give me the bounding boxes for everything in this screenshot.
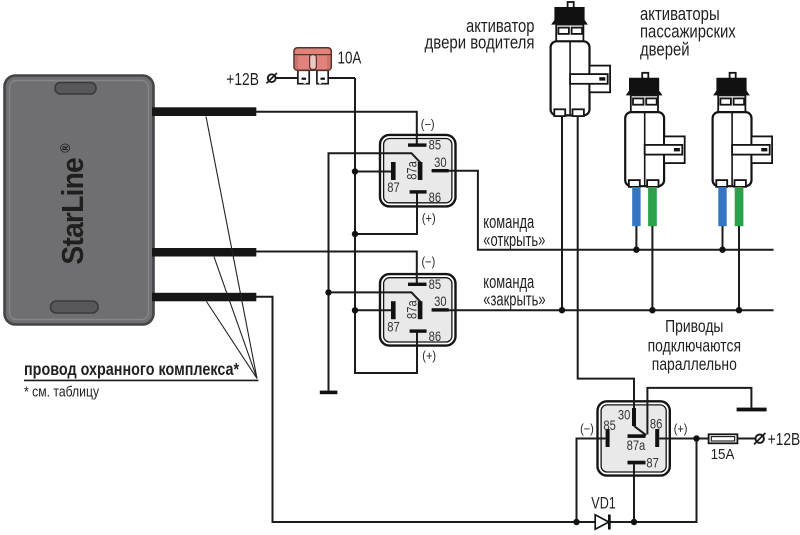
relay K1 armature contact	[418, 162, 423, 180]
relay K3 armature	[634, 426, 646, 435]
relay K1 pin 85	[408, 143, 427, 146]
svg-text:StarLine®: StarLine®	[56, 143, 90, 265]
svg-text:двери водителя: двери водителя	[425, 32, 535, 53]
relay K1 (−) label	[421, 117, 435, 132]
wire: M2 blue lead to unlock bus	[635, 226, 637, 250]
relay K2 armature contact	[418, 301, 423, 319]
node: M3 blue to unlock bus	[719, 247, 725, 253]
relay K3 pin 86 label	[650, 415, 662, 432]
wire: fuse F1 to +12V rail	[328, 77, 356, 79]
callout line to wire 2	[214, 257, 257, 379]
node: K3 pin 85 to bottom rail	[573, 519, 579, 525]
callout line to wire 3	[207, 302, 258, 379]
svg-text:85: 85	[429, 276, 441, 293]
svg-text:87: 87	[387, 179, 399, 196]
relay K3 pin 85 label	[603, 417, 615, 434]
relay K2 pin 85 label	[429, 276, 441, 293]
relay K2 pin 87 label	[387, 318, 399, 335]
wire: driver actuator right lead to relay K3 pin 30	[578, 116, 634, 408]
node: M2 blue to unlock bus	[633, 247, 639, 253]
relay K1 pin 30	[432, 169, 449, 172]
wire: trigger wire 1 to K1 pin 85	[256, 112, 417, 145]
relay K1 pin 86	[410, 190, 427, 193]
relay K3 pin 87a	[628, 434, 646, 438]
svg-text:(−): (−)	[422, 254, 436, 269]
label: команда «открыть»	[483, 213, 545, 251]
label +12В (top)	[226, 70, 259, 89]
+12V terminal (top)	[267, 73, 277, 83]
svg-text:30: 30	[434, 154, 446, 171]
wire: +12V branch to K1 pin 86	[355, 193, 417, 234]
note: * см. таблицу	[24, 383, 99, 399]
svg-text:10A: 10A	[338, 49, 362, 68]
svg-text:* см. таблицу: * см. таблицу	[24, 383, 99, 399]
wire: driver actuator left lead to lock bus	[561, 116, 563, 310]
label: провод охранного комплекса*	[24, 361, 259, 381]
StarLine logo	[56, 143, 90, 265]
relay K3 pin 30 label	[618, 406, 630, 423]
label: активатор двери водителя	[425, 16, 535, 53]
relay K1 (unlock relay) body	[380, 135, 456, 207]
relay K2 (+) label	[422, 348, 436, 363]
wire: +12V branch to K1 pin 87	[355, 171, 392, 173]
label VD1	[591, 495, 616, 513]
svg-text:87: 87	[387, 318, 399, 335]
wire: trigger wire 2 to K2 pin 85	[256, 252, 417, 285]
label 10A	[338, 49, 362, 68]
wire: K3 pin 87a to ground	[647, 388, 751, 435]
thick output wire 1 (unlock trigger)	[152, 107, 256, 116]
relay K3 (+) label	[674, 421, 688, 436]
svg-text:+12В: +12В	[226, 70, 259, 89]
svg-text:87а: 87а	[403, 160, 420, 179]
label: Приводы подключаются параллельно	[648, 317, 741, 374]
relay K2 pin 85	[408, 283, 427, 286]
node: M3 green to lock bus	[736, 307, 742, 313]
label: команда «закрыть»	[483, 273, 545, 310]
wire: K3 pin 87 to bottom rail	[633, 465, 635, 523]
node: M2 green to lock bus	[649, 307, 655, 313]
relay K2 (lock relay) body	[380, 274, 456, 346]
+12V terminal (bottom)	[754, 433, 765, 444]
relay K3 pin 87 label	[646, 454, 658, 471]
thick output wire 3 (comfort output)	[152, 293, 256, 302]
relay K1 pin 87a label	[403, 160, 420, 179]
blue wire of actuator M2	[632, 187, 640, 226]
node: driver lead to lock bus	[559, 307, 565, 313]
fuse F1 (10A blade fuse)	[294, 48, 331, 84]
driver door actuator M1	[551, 2, 611, 116]
wire: K2 87a branch to ground rail	[329, 292, 421, 301]
relay K3 pin 87	[628, 461, 646, 465]
svg-text:86: 86	[650, 415, 662, 432]
node: K1 pin 87 junction	[352, 168, 358, 174]
svg-text:87а: 87а	[627, 437, 646, 454]
relay K2 pin 30	[432, 308, 449, 311]
relay K2 pin 30 label	[434, 293, 446, 310]
fuse F2 (15A)	[709, 434, 738, 443]
svg-text:86: 86	[429, 189, 441, 206]
alarm unit U1 (StarLine security module)	[5, 76, 154, 325]
svg-text:85: 85	[429, 136, 441, 153]
wire: lock bus from K2 pin 30	[449, 309, 774, 311]
svg-text:параллельно: параллельно	[652, 356, 737, 375]
svg-text:подключаются: подключаются	[648, 337, 741, 356]
wire: ground rail for K1/K2 contacts 87a	[329, 153, 421, 391]
green wire of actuator M3	[735, 187, 744, 226]
wire: M3 blue lead to unlock bus	[722, 226, 724, 250]
relay K3 (comfort relay) body	[598, 401, 670, 475]
wire: fused +12V rail (to relays K1/K2 pins 87 and 86)	[355, 78, 417, 373]
relay K2 (−) label	[422, 254, 436, 269]
svg-text:(+): (+)	[422, 211, 436, 226]
blue wire of actuator M3	[718, 187, 726, 226]
wire: M2 green lead to lock bus	[651, 226, 653, 310]
node: +12V branch to bottom rail	[693, 435, 699, 441]
relay K1 pin 85 label	[429, 136, 441, 153]
svg-text:провод охранного комплекса*: провод охранного комплекса*	[24, 361, 240, 379]
passenger door actuator M3	[713, 73, 773, 187]
ground symbol (relays K1/K2)	[320, 391, 338, 395]
passenger door actuator M2	[625, 73, 684, 187]
svg-text:15A: 15A	[711, 445, 735, 462]
svg-text:«открыть»: «открыть»	[483, 231, 545, 251]
label: активаторы пассажирских дверей	[640, 4, 736, 60]
relay K1 pin 86 label	[429, 189, 441, 206]
relay K1 pin 87 label	[387, 179, 399, 196]
node: K3 pin 87 to bottom rail	[631, 519, 637, 525]
svg-text:86: 86	[429, 328, 441, 345]
relay K3 pin 87a label	[627, 437, 646, 454]
svg-text:+12В: +12В	[768, 431, 800, 450]
svg-text:(−): (−)	[421, 117, 435, 132]
svg-text:30: 30	[618, 406, 630, 423]
green wire of actuator M2	[648, 187, 657, 226]
relay K2 pin 87	[391, 301, 396, 319]
svg-text:команда: команда	[483, 213, 534, 233]
relay K1 pin 30 label	[434, 154, 446, 171]
svg-text:«закрыть»: «закрыть»	[483, 291, 545, 311]
diode VD1	[595, 515, 611, 530]
relay K3 (−) label	[580, 421, 594, 436]
label 15A	[711, 445, 735, 462]
relay K2 pin 87a label	[403, 300, 420, 319]
node: K1 pin 86 junction	[352, 231, 358, 237]
node: K2 87a junction	[325, 289, 331, 295]
svg-text:85: 85	[603, 417, 615, 434]
wire: unlock bus from K1 pin 30	[449, 171, 774, 250]
label +12В (bottom)	[768, 431, 800, 450]
relay K1 (+) label	[422, 211, 436, 226]
relay K1 pin 87	[391, 162, 396, 180]
wire: bottom rail from VD1 to +12V branch	[610, 439, 697, 523]
wire: M3 green lead to lock bus	[738, 226, 740, 310]
wire: K3 pin 86 to fuse F2	[659, 438, 708, 440]
relay K2 pin 86 label	[429, 328, 441, 345]
relay K3 pin 85	[606, 429, 610, 447]
svg-text:(+): (+)	[674, 421, 688, 436]
svg-text:дверей: дверей	[640, 39, 690, 60]
svg-text:Приводы: Приводы	[665, 317, 723, 336]
svg-text:VD1: VD1	[591, 495, 616, 513]
relay K3 pin 30	[632, 408, 636, 426]
node: K2 pin 87 junction	[352, 307, 358, 313]
wire: +12V branch to K2 pin 87	[355, 309, 392, 311]
relay K3 pin 86	[655, 429, 659, 447]
wire: K3 pin 85 to bottom rail	[577, 439, 606, 523]
svg-text:30: 30	[434, 293, 446, 310]
svg-text:87а: 87а	[403, 300, 420, 319]
wire: +12V terminal to fuse F1	[276, 77, 298, 79]
wire: comfort output wire 3 to bottom rail	[256, 297, 595, 522]
svg-text:(−): (−)	[580, 421, 594, 436]
svg-text:87: 87	[646, 454, 658, 471]
callout line to wire 1	[206, 117, 257, 379]
thick output wire 2 (lock trigger)	[152, 248, 256, 257]
wire: fuse F2 to +12V terminal (bottom)	[737, 438, 755, 440]
svg-text:(+): (+)	[422, 348, 436, 363]
ground symbol (relay K3)	[737, 408, 767, 412]
relay K2 pin 86	[410, 329, 427, 332]
